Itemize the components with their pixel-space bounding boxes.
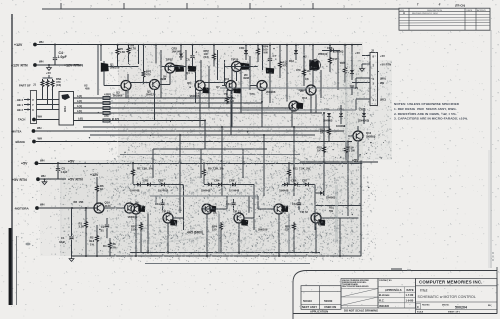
- wire +12V rail: [37, 44, 362, 46]
- junction dots motora: [85, 202, 98, 209]
- zone tick 1: [60, 3, 62, 9]
- wire Q3 drop: [125, 91, 127, 99]
- svg-text:500116: 500116: [303, 299, 312, 303]
- svg-text:L(1): L(1): [77, 104, 82, 108]
- stage1 verticals: [136, 185, 184, 257]
- scan noise right of J2: [340, 60, 392, 160]
- resistor network RN1 c: [51, 79, 54, 88]
- R9 resistor: [203, 163, 225, 184]
- vertical riser 10: [231, 98, 233, 127]
- smudge streak 3: [335, 185, 338, 240]
- resistor network RN1 b: [46, 79, 49, 88]
- application table: [301, 286, 341, 314]
- J2 pin 5: [356, 77, 386, 82]
- diode CR8: [322, 46, 344, 53]
- zone tick 3: [186, 3, 188, 9]
- svg-text:500204: 500204: [455, 306, 467, 310]
- vertical riser 5: [242, 149, 244, 178]
- wire v262 down: [261, 91, 263, 104]
- svg-text:1%: 1%: [90, 243, 94, 247]
- wire stage3 drop2: [288, 214, 290, 253]
- svg-text:X: X: [32, 108, 34, 112]
- svg-text:DATE: DATE: [467, 9, 473, 12]
- capacitor C2: [100, 218, 109, 238]
- wire Q10 drop: [230, 91, 232, 136]
- svg-text:39.2: 39.2: [89, 239, 95, 243]
- wire stage2 base: [202, 208, 227, 210]
- svg-text:33µF: 33µF: [59, 240, 66, 244]
- transistor Q17: [162, 210, 177, 226]
- wire bus D: [120, 154, 300, 156]
- stray dash marks: [391, 252, 493, 270]
- dark cap blob: [189, 67, 196, 72]
- resistor R6: [96, 184, 104, 203]
- transistor Q2 dark body: [303, 45, 321, 71]
- svg-text:L(0): L(0): [78, 117, 83, 121]
- resistor R16: [340, 61, 347, 83]
- transistor Q12u: [300, 85, 316, 95]
- resistor R13: [320, 124, 331, 142]
- svg-text:DWG NO.: DWG NO.: [442, 305, 450, 307]
- svg-text:CONTRACT NO.: CONTRACT NO.: [379, 279, 392, 282]
- RP2 label: [204, 49, 210, 59]
- resistor R2: [89, 225, 99, 256]
- svg-text:1.0µF: 1.0µF: [58, 55, 67, 59]
- wire v232: [231, 66, 233, 98]
- transistor Q19: [233, 210, 248, 226]
- scan noise band lower: [60, 160, 362, 256]
- wire v143: [143, 45, 145, 64]
- wire h66 c: [225, 66, 259, 68]
- +12V mid label: [90, 173, 99, 184]
- svg-text:TACH: TACH: [18, 118, 25, 122]
- wire U2 out L(1): [74, 104, 293, 108]
- wire v287 ext: [286, 75, 288, 102]
- scan noise top strip: [60, 14, 390, 42]
- title block outline with rounded corner: [293, 271, 497, 319]
- sheet top border line: [42, 8, 399, 10]
- svg-text:50000: 50000: [324, 299, 333, 303]
- connector J2 body: [370, 53, 378, 106]
- wire v250: [249, 56, 251, 90]
- svg-text:SCHEMATIC w MOTOR CONTROL: SCHEMATIC w MOTOR CONTROL: [418, 295, 476, 299]
- resistor R8: [74, 200, 84, 204]
- svg-text:J1: J1: [33, 83, 36, 87]
- svg-text:J2: J2: [371, 49, 374, 53]
- svg-text:1.0µF: 1.0µF: [61, 170, 68, 174]
- wire v138: [138, 45, 140, 64]
- AR5 6800 dark label: [187, 231, 203, 235]
- svg-text:+12V RTN: +12V RTN: [64, 63, 81, 67]
- svg-text:C2: C2: [101, 225, 105, 229]
- diode CR9: [323, 108, 333, 125]
- stage2 verticals: [207, 185, 254, 257]
- +12V terminal: [14, 40, 44, 47]
- resistor R4: [127, 44, 136, 65]
- capacitor C4: [53, 44, 67, 65]
- wire bus B: [90, 134, 315, 136]
- wire U2 out tach: [74, 117, 206, 122]
- ground at +5V RTN: [42, 178, 47, 184]
- diode CR3b: [201, 183, 211, 193]
- wire stage2 mid drop: [218, 214, 220, 253]
- -MOTORA input: [14, 203, 45, 211]
- IC U2 body: [59, 92, 74, 126]
- svg-text:R8: R8: [74, 200, 78, 204]
- svg-text:WH: WH: [37, 126, 42, 130]
- svg-text:3.3K: 3.3K: [79, 225, 85, 229]
- ground at +12V RTN: [47, 64, 52, 70]
- svg-text:2.7K: 2.7K: [131, 47, 137, 51]
- transistor Q21: [300, 210, 325, 225]
- vertical riser 6: [263, 135, 265, 196]
- wire v224: [224, 60, 226, 85]
- svg-text:HE 3: HE 3: [17, 98, 23, 102]
- svg-text:SCALE: SCALE: [417, 311, 424, 314]
- HE2 input: [17, 108, 31, 112]
- rail junction dots: [100, 44, 353, 46]
- svg-text:456: 456: [85, 87, 90, 91]
- svg-text:A: A: [403, 11, 405, 15]
- wires into J2: [355, 78, 357, 110]
- J2 gnd: [360, 64, 365, 71]
- svg-text:15K: 15K: [79, 200, 84, 204]
- cap C7: [268, 44, 277, 68]
- transistor Q8 TIP32: [231, 58, 249, 72]
- wire v209: [208, 66, 210, 108]
- svg-text:DESCRIPTION: DESCRIPTION: [427, 10, 442, 12]
- wire -MUTEA: [36, 130, 345, 132]
- ground bottom: [69, 256, 74, 261]
- wire v195: [195, 72, 197, 103]
- wire top right vertical 345: [344, 45, 346, 66]
- svg-text:ISSUED: ISSUED: [379, 304, 389, 308]
- U2 designator: [84, 84, 90, 91]
- wire U2 out L(0): [74, 109, 323, 113]
- svg-text:L(0): L(0): [77, 109, 82, 113]
- wire stage2 extra: [226, 196, 228, 209]
- stage3 left feed: [258, 196, 274, 209]
- zone tick 5: [312, 3, 314, 9]
- svg-text:2. RESISTORS ARE IN OHMS, ¼W,: 2. RESISTORS ARE IN OHMS, ¼W, ± 5%.: [394, 112, 457, 116]
- wire +12V RTN: [37, 64, 83, 66]
- wire stage1 base: [155, 196, 157, 205]
- vertical riser 2: [179, 135, 181, 196]
- rail 2: [130, 252, 320, 254]
- diode CR10: [336, 105, 346, 128]
- J2 pin 8: [355, 51, 385, 59]
- resistor RP1-b: [103, 102, 110, 105]
- diode CR12: [315, 191, 336, 200]
- resistor RP1-c: [103, 107, 110, 110]
- svg-text:R2: R2: [90, 236, 94, 240]
- resistor RP4a: [257, 45, 260, 62]
- svg-text:HE 2: HE 2: [17, 108, 23, 112]
- svg-text:HE 1: HE 1: [17, 103, 23, 107]
- svg-text:DO NOT SCALE DRAWING: DO NOT SCALE DRAWING: [344, 309, 378, 313]
- capacitor C10: [155, 199, 165, 210]
- wire v304: [303, 45, 305, 86]
- resistor RP1-a: [103, 93, 115, 100]
- svg-text:+5V: +5V: [380, 54, 385, 58]
- vertical riser 9: [347, 142, 349, 217]
- wire v241: [240, 70, 242, 113]
- notes: [394, 102, 468, 121]
- svg-text:NOTES: UNLESS OTHERWISE SPECIF: NOTES: UNLESS OTHERWISE SPECIFIED: [394, 102, 460, 106]
- wire +5V rail bottom: [66, 162, 362, 164]
- transistor Q20: [274, 204, 288, 215]
- scan noise left lower: [14, 150, 64, 260]
- diode CR6: [229, 179, 240, 193]
- wire Q2 down: [312, 71, 314, 86]
- capacitor C6: [186, 44, 195, 66]
- stage A vertical from rail: [100, 45, 102, 61]
- +5V terminal: [21, 159, 45, 166]
- zone tick 4: [249, 3, 251, 9]
- +12V RTN terminal: [11, 60, 44, 68]
- transistor Q6b: [250, 81, 267, 91]
- svg-text:NEXT ASSY: NEXT ASSY: [302, 305, 317, 309]
- cap C9: [350, 86, 359, 95]
- svg-text:+12V: +12V: [90, 173, 99, 177]
- transistor Q5: [146, 80, 160, 97]
- svg-text:APPRVD: APPRVD: [477, 9, 486, 12]
- R11 resistor: [288, 163, 311, 184]
- svg-text:+5V: +5V: [46, 71, 51, 75]
- svg-text:ØB: ØB: [380, 81, 384, 85]
- scan noise band centre: [123, 57, 353, 162]
- J2 pin 1: [356, 98, 386, 103]
- svg-text:WH: WH: [38, 137, 43, 141]
- svg-text:APPLICATION: APPLICATION: [310, 310, 328, 314]
- smudge blob left: [26, 243, 31, 246]
- noise box right edge: [360, 161, 362, 257]
- wire +5V RTN: [40, 178, 66, 180]
- junction -motora r8: [71, 207, 73, 209]
- wire v201: [200, 60, 202, 81]
- resistor R15: [317, 142, 326, 161]
- approvals block: [378, 279, 416, 309]
- transistor Q9: [195, 81, 209, 96]
- resistor R4b: [103, 238, 117, 256]
- svg-text:+5V RTN: +5V RTN: [12, 178, 27, 182]
- svg-text:FRACTIONS DECIMALS ANGLES: FRACTIONS DECIMALS ANGLES: [342, 285, 369, 288]
- smudge streak 2: [205, 249, 275, 255]
- -MUTEA input: [11, 126, 42, 133]
- wire BRAKE: [36, 141, 352, 143]
- svg-text:WH: WH: [41, 174, 46, 178]
- bottom rail main: [72, 255, 362, 257]
- transistor Q14: [94, 201, 111, 214]
- wire between q14 q15: [104, 207, 118, 209]
- svg-text:C: C: [417, 305, 419, 309]
- +5V RTN terminal: [12, 174, 46, 182]
- svg-text:WH: WH: [39, 40, 44, 44]
- J2 pin 7: [362, 63, 391, 68]
- smudge streak 1: [150, 236, 210, 245]
- wire stage1 mid drop: [147, 214, 149, 253]
- junction dots rails: [85, 252, 341, 258]
- svg-text:FSCM NO.: FSCM NO.: [422, 305, 430, 307]
- R7 resistor: [132, 163, 154, 184]
- diode CR1: [130, 183, 140, 193]
- HE1 input: [17, 103, 31, 107]
- vertical riser 12: [291, 108, 293, 127]
- svg-text:-F: -F: [438, 3, 441, 7]
- svg-text:+5V RTN: +5V RTN: [68, 178, 83, 182]
- svg-text:R.C.: R.C.: [379, 299, 385, 303]
- stage3 top wire: [282, 184, 315, 186]
- extra junction dots on buses: [179, 97, 349, 143]
- vertical riser 4: [221, 127, 223, 196]
- wires J1 to U2: [37, 100, 60, 110]
- dark blob C7: [267, 69, 274, 74]
- vertical riser 13: [204, 121, 206, 150]
- transistor Q3: [110, 81, 131, 98]
- vertical riser 8: [323, 113, 325, 196]
- transistor Q7 TIP32: [165, 58, 183, 74]
- svg-text:+12V: +12V: [14, 43, 23, 47]
- vertical riser 7: [293, 127, 295, 196]
- svg-text:APPROVALS: APPROVALS: [385, 288, 402, 292]
- wire -MOTORA: [39, 207, 97, 209]
- connector J1 body: [31, 91, 37, 124]
- vertical riser 3: [200, 149, 202, 178]
- wire U2 out L(3): [74, 94, 233, 98]
- wire v186: [185, 50, 187, 80]
- wires bottom left go: [150, 195, 258, 197]
- svg-text:1. REF DESIG PER 500205 ASSY: 1. REF DESIG PER 500205 ASSY, DWG.: [394, 107, 457, 111]
- transistor Q11 dark: [289, 101, 303, 111]
- RN1 leads to HE lines: [43, 88, 53, 109]
- svg-text:7445: 7445: [63, 106, 67, 112]
- diode CR3: [172, 45, 184, 60]
- +5V feed to RN1: [43, 71, 53, 78]
- svg-text:USED ON: USED ON: [324, 305, 336, 309]
- resistor network RN1 a: [41, 79, 44, 88]
- svg-text:DATE: DATE: [407, 288, 414, 292]
- transistor Q1 dark body: [102, 61, 120, 71]
- diode CR6c: [291, 179, 297, 187]
- wire J2 phase A long: [220, 87, 356, 89]
- resistor RP4b: [212, 222, 223, 253]
- wire stage A: [104, 71, 128, 99]
- svg-text:-MUTEA: -MUTEA: [11, 129, 22, 133]
- resistor RP2a: [213, 45, 216, 67]
- svg-text:TITLE: TITLE: [420, 289, 428, 293]
- RN1 label: [56, 77, 62, 87]
- resistor RP5: [285, 222, 296, 253]
- svg-text:C1: C1: [61, 236, 65, 240]
- svg-text:V: V: [32, 98, 34, 102]
- diode CR5t: [294, 45, 298, 60]
- diode CR7t: [350, 70, 354, 80]
- sheet left border thick line: [9, 14, 17, 305]
- wire stage B collect: [159, 73, 170, 85]
- U2 dark marking: [62, 94, 71, 100]
- svg-text:1-7-80: 1-7-80: [406, 293, 414, 297]
- zone tick 2: [123, 3, 125, 9]
- resistor R17: [329, 45, 338, 72]
- rail dots: [57, 162, 290, 164]
- svg-text:+5V RTN: +5V RTN: [380, 63, 391, 67]
- svg-text:3. CAPACITORS ARE IN MICRO-FAR: 3. CAPACITORS ARE IN MICRO-FARADS, ±10%.: [394, 117, 468, 121]
- svg-text:-MOTORA: -MOTORA: [14, 207, 29, 211]
- transistor Q15: [118, 201, 141, 214]
- resistor R14: [345, 142, 356, 161]
- stage2 top wire: [204, 184, 254, 186]
- bottom vertical 279: [278, 248, 280, 256]
- resistor R12: [279, 60, 288, 78]
- wire h66 a: [108, 66, 139, 68]
- resistor RP3: [131, 222, 143, 253]
- wire Q12 drop: [310, 95, 312, 113]
- svg-text:SHEET 1 OF 1: SHEET 1 OF 1: [448, 312, 460, 314]
- sheet right faint border: [490, 30, 492, 268]
- R10 5W label: [329, 206, 334, 214]
- wire Q13 emitter: [357, 126, 359, 161]
- rail 3: [145, 263, 310, 265]
- J2 pin 3: [352, 81, 384, 86]
- vertical riser 11: [261, 103, 263, 127]
- svg-text:B.Jones: B.Jones: [379, 293, 390, 297]
- resistor R1: [79, 207, 88, 256]
- svg-text:WH: WH: [40, 159, 45, 163]
- svg-text:1-9-80: 1-9-80: [406, 299, 414, 303]
- revision table: [399, 3, 490, 31]
- wire +5V: [39, 162, 67, 164]
- svg-text:C5: C5: [62, 167, 66, 171]
- diode CR5a: [158, 179, 169, 193]
- svg-text:L(3): L(3): [77, 94, 82, 98]
- svg-text:+5V: +5V: [21, 162, 28, 166]
- junction dots 2: [269, 44, 331, 46]
- vertical riser 1: [152, 149, 154, 178]
- company block: [416, 267, 498, 314]
- diode CR2: [143, 179, 150, 187]
- resistor R5: [116, 45, 125, 66]
- svg-text:WH: WH: [38, 115, 43, 119]
- svg-text:1K: 1K: [100, 187, 103, 191]
- wire h82 b: [205, 82, 227, 84]
- wire v161: [160, 50, 162, 98]
- transistor Q10: [224, 81, 240, 97]
- svg-text:(X3): (X3): [56, 83, 61, 87]
- svg-text:(ØC): (ØC): [380, 98, 386, 102]
- transistor Q16: [128, 204, 145, 219]
- svg-text:Y: Y: [32, 103, 34, 107]
- svg-text:(ØA): (ØA): [380, 77, 386, 81]
- capacitor C1: [59, 208, 74, 256]
- wire v270: [269, 72, 271, 103]
- capacitor C12: [292, 199, 301, 210]
- wire U2 out L(2): [74, 99, 263, 103]
- diode CR7: [302, 179, 308, 187]
- wire J2 phase C long: [240, 109, 356, 111]
- svg-text:WH: WH: [40, 203, 45, 207]
- diode CR5c: [279, 183, 289, 193]
- svg-text:+5V: +5V: [68, 159, 75, 163]
- svg-text:PART OF: PART OF: [19, 84, 31, 88]
- capacitor C11: [226, 199, 236, 210]
- stage3 verticals: [279, 185, 361, 257]
- svg-text:CR4: CR4: [239, 46, 245, 50]
- wire v338: [337, 51, 339, 91]
- stage1 top wire: [133, 184, 168, 186]
- svg-text:+12V RTN: +12V RTN: [11, 64, 28, 68]
- BRAKE input: [16, 137, 43, 144]
- HE3 input: [17, 98, 31, 102]
